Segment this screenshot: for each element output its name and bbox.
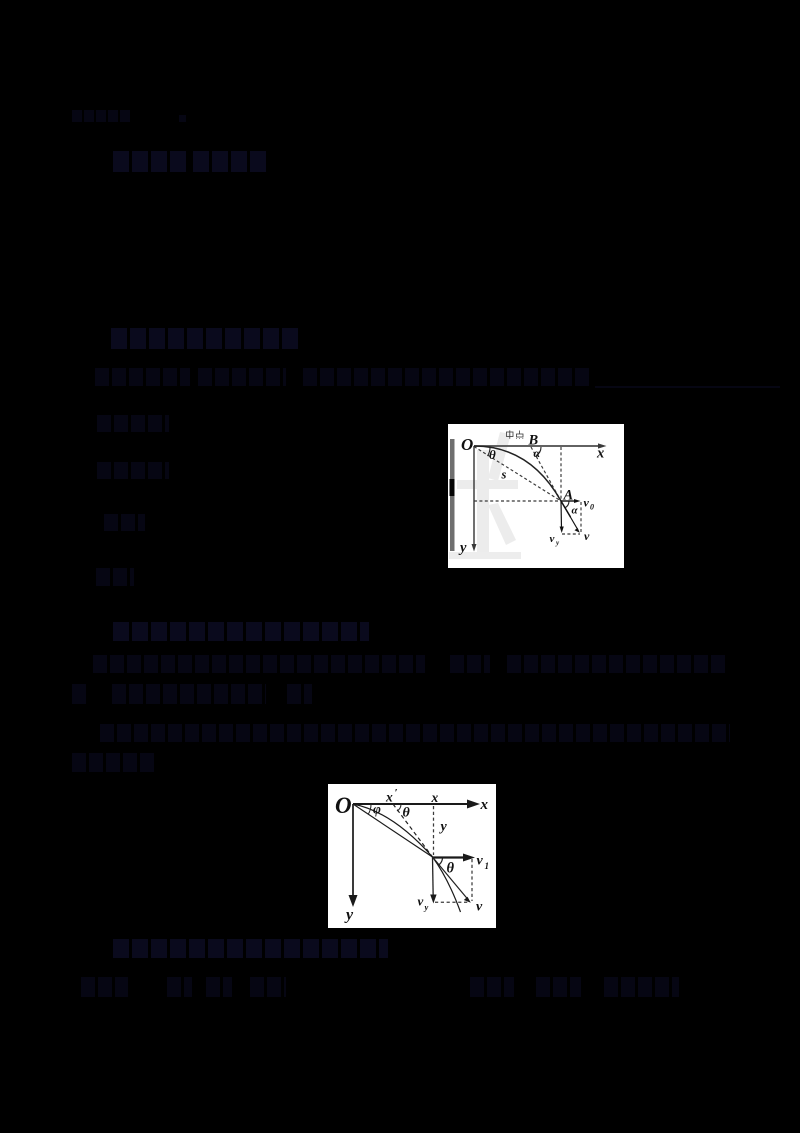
- svg-text:s: s: [501, 468, 507, 482]
- svg-text:′: ′: [395, 787, 398, 799]
- svg-text:θ: θ: [403, 806, 411, 821]
- svg-text:y: y: [344, 907, 354, 924]
- svg-text:v: v: [550, 533, 555, 545]
- svg-text:1: 1: [485, 861, 490, 871]
- svg-text:θ: θ: [489, 447, 496, 462]
- svg-text:v: v: [584, 496, 590, 510]
- svg-text:v: v: [418, 894, 424, 909]
- svg-text:v: v: [476, 900, 483, 915]
- svg-text:x: x: [431, 790, 439, 805]
- svg-text:α: α: [572, 505, 579, 517]
- svg-text:φ: φ: [373, 802, 381, 817]
- svg-text:x: x: [385, 790, 393, 805]
- svg-text:y: y: [424, 902, 429, 912]
- svg-text:A: A: [563, 488, 574, 504]
- svg-text:α: α: [534, 446, 541, 460]
- svg-text:0: 0: [590, 503, 594, 512]
- svg-text:y: y: [439, 820, 448, 835]
- svg-text:O: O: [461, 435, 473, 454]
- svg-text:v: v: [477, 854, 484, 869]
- svg-text:x: x: [480, 797, 489, 813]
- svg-text:x: x: [596, 446, 604, 462]
- svg-text:v: v: [584, 529, 590, 543]
- svg-text:y: y: [458, 540, 467, 556]
- svg-text:O: O: [335, 793, 352, 818]
- svg-text:θ: θ: [447, 861, 455, 877]
